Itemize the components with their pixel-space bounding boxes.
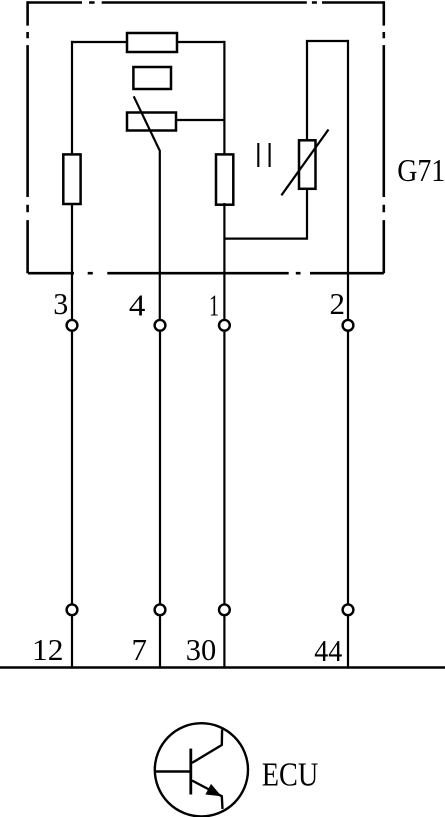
svg-text:3: 3	[53, 286, 68, 321]
thermistor (variable resistor)	[281, 130, 328, 196]
wire top horizontal to right branch	[306, 40, 348, 42]
wire pin 1 to ECU terminal 30	[223, 331, 225, 605]
capacitor-like bars symbol	[258, 143, 269, 167]
terminal circle pin 1	[219, 320, 230, 331]
transistor base lead	[155, 770, 191, 772]
wire pin 2 to ECU terminal 44	[347, 331, 349, 605]
connector circle terminal 7	[155, 604, 166, 615]
transistor collector	[192, 730, 222, 763]
resistor (left vertical)	[63, 154, 80, 204]
wire left resistor to terminal 3	[71, 203, 73, 320]
wire pin 3 to ECU terminal 12	[71, 331, 73, 605]
svg-text:1: 1	[209, 288, 219, 323]
wire terminal 7 to bus	[159, 615, 161, 667]
svg-text:30: 30	[186, 632, 217, 667]
connector circle terminal 44	[343, 604, 354, 615]
connector circle terminal 12	[67, 604, 78, 615]
transistor emitter	[192, 781, 223, 809]
wire top-left corner to resistor	[71, 41, 128, 155]
svg-text:G71: G71	[397, 152, 445, 188]
terminal circle pin 2	[343, 320, 354, 331]
svg-text:12: 12	[32, 632, 64, 667]
wire resistor to right vertical	[176, 41, 224, 43]
svg-text:2: 2	[330, 286, 346, 321]
wire pin 4 to ECU terminal 7	[159, 331, 161, 605]
wire junction to thermistor bottom	[224, 238, 307, 240]
svg-text:44: 44	[314, 633, 342, 668]
terminal circle pin 4	[155, 320, 166, 331]
wire right vertical (node to middle resistor)	[223, 41, 225, 155]
wire thermistor top up	[306, 41, 308, 141]
wire right branch down to terminal 2	[347, 40, 349, 320]
resistor (top horizontal)	[127, 33, 177, 52]
wire terminal 30 to bus	[223, 615, 225, 667]
wire middle resistor to terminal 1	[223, 203, 225, 320]
relay coil rectangle	[133, 67, 171, 89]
svg-text:4: 4	[129, 288, 146, 323]
ECU transistor circle	[155, 723, 248, 816]
transistor emitter arrowhead	[205, 784, 221, 796]
switch arm (diagonal)	[134, 96, 160, 320]
wire terminal 44 to bus	[347, 615, 349, 667]
transistor base bar	[189, 749, 192, 795]
wire switch to right vertical	[176, 119, 224, 121]
connector circle terminal 30	[219, 604, 230, 615]
switch contact rectangle	[127, 113, 176, 131]
ECU bus line	[0, 666, 445, 669]
wire terminal 12 to bus	[71, 615, 73, 667]
terminal circle pin 3	[67, 320, 78, 331]
svg-text:7: 7	[132, 632, 148, 667]
wire thermistor bottom vertical	[306, 188, 308, 240]
svg-text:ECU: ECU	[262, 757, 319, 794]
component box G71 (dash-dot border)	[28, 1, 384, 273]
resistor (middle vertical)	[216, 154, 233, 204]
